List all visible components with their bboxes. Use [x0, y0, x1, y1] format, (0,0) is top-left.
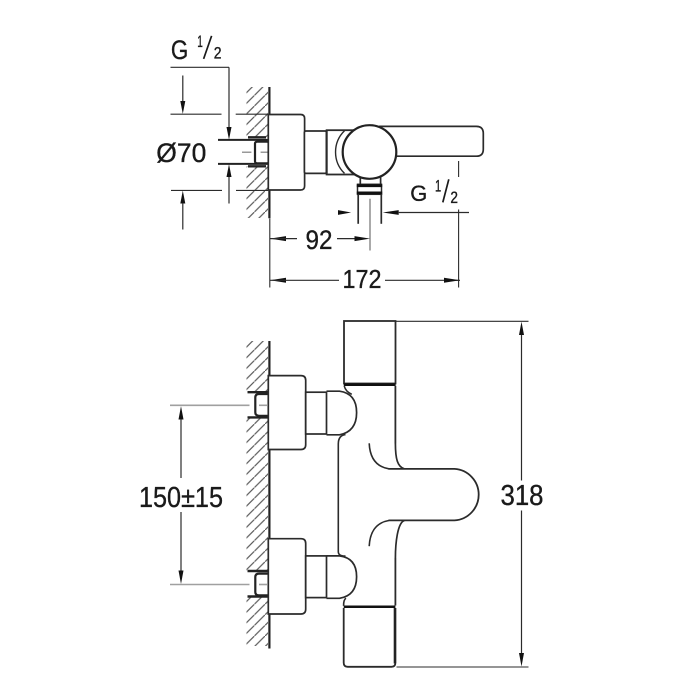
outlet collar (top view) [357, 184, 382, 194]
extension line at wall (92/172) [269, 219, 271, 288]
svg-text:318: 318 [501, 480, 544, 512]
union connector upper [306, 392, 327, 434]
valve body (top view) [327, 130, 370, 174]
wall face line (top view) [268, 87, 270, 218]
wall face line (bottom view) [268, 341, 270, 649]
gray centerline upper inlet [170, 404, 267, 406]
s-union nut (top view) [304, 131, 326, 173]
union connector lower [306, 556, 327, 598]
svg-text:172: 172 [343, 264, 382, 294]
escutcheon flange (top view) [268, 115, 304, 191]
arrow up to pipe bottom [227, 164, 232, 203]
escutcheon upper (bottom view) [268, 376, 305, 450]
dimension 92 [270, 236, 370, 241]
cap bottom thick line [344, 383, 396, 386]
gray centerline lower inlet [170, 584, 267, 586]
arrow down to pipe top [227, 127, 232, 140]
wall hole edges upper inlet [248, 392, 269, 417]
dimension 318 [519, 322, 524, 667]
lever handle (top view) [380, 126, 483, 156]
inlet pipe (top view) [218, 140, 269, 164]
svg-text:2: 2 [214, 43, 222, 62]
outlet pipe (top view) [358, 194, 381, 224]
svg-text:Ø70: Ø70 [156, 138, 206, 168]
body bottom thick line [344, 605, 396, 608]
bottom outlet piece [344, 608, 396, 667]
lower S-curve of handle neck [369, 521, 389, 547]
svg-text:150±15: 150±15 [139, 482, 223, 514]
handle tab (bottom view) [389, 469, 479, 521]
svg-text:G: G [171, 35, 188, 65]
leader line G 1/2 top [171, 67, 230, 127]
outlet neck (top view) [360, 172, 380, 184]
extension line top of body (318) [396, 320, 529, 322]
svg-text:92: 92 [306, 225, 333, 255]
dimension 172 [270, 278, 460, 283]
inlet dome upper [327, 391, 357, 435]
nipple upper (bottom view) [255, 394, 270, 416]
cartridge circle (top view) [343, 125, 397, 179]
wall hole edge lower [248, 165, 266, 167]
extension line bottom of flange [171, 189, 268, 191]
label G 1/2 (top inlet) [171, 32, 222, 65]
fillet body to tab top [395, 444, 404, 469]
label G 1/2 (outlet) [410, 177, 458, 207]
wall hole edge upper [248, 136, 266, 138]
dimension G 1/2 outlet arrows [338, 210, 469, 215]
dashed centerline of pipe (top view) [242, 151, 270, 153]
svg-text:1: 1 [435, 177, 441, 195]
svg-text:G: G [410, 181, 427, 206]
svg-text:1: 1 [197, 32, 203, 51]
extension line bottom of body (318) [397, 666, 529, 668]
extension line top of flange [171, 113, 269, 115]
body left edge between domes [338, 435, 345, 557]
wall hatching (top view) [247, 87, 269, 218]
nipple lower (bottom view) [255, 574, 270, 596]
inlet dome lower [327, 556, 357, 598]
fillet body to tab bottom [395, 520, 404, 558]
nipple (top view) [255, 142, 269, 164]
svg-text:2: 2 [450, 189, 458, 207]
wall hole edges lower inlet [248, 571, 269, 597]
upper S-curve of handle neck [369, 443, 389, 469]
cap corner to dome curve [344, 386, 352, 395]
bottom outlet right edge thick [394, 608, 396, 664]
body left edge below lower dome [344, 598, 346, 606]
body right edge upper [394, 386, 396, 444]
body right edge lower [394, 558, 396, 606]
body end arc behind cartridge [336, 131, 345, 174]
dimension 150±15 [179, 406, 184, 584]
escutcheon lower (bottom view) [268, 539, 305, 614]
outlet centerline [369, 199, 371, 251]
extension line at handle end (172) dashed [458, 161, 460, 288]
wall hatching (bottom view) [247, 341, 269, 646]
dimension arrows for Ø70 [180, 76, 185, 230]
body top cap [344, 321, 396, 384]
